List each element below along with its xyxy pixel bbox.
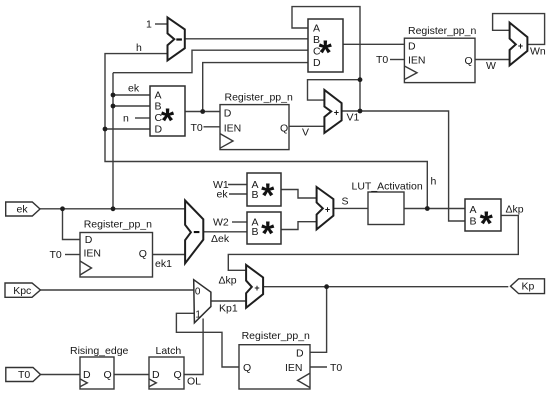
wire ek to multiplier U1 A: [113, 94, 150, 96]
svg-text:IEN: IEN: [285, 362, 303, 374]
multiplier U5: [465, 199, 501, 243]
junction Kp to R4: [324, 284, 329, 289]
svg-text:OL: OL: [187, 376, 201, 388]
wire S from A3 to LUT: [333, 207, 368, 209]
svg-text:1: 1: [146, 19, 152, 31]
wire OL from latch to mux select: [184, 319, 203, 375]
svg-text:+: +: [325, 205, 330, 215]
junction V1 feedback upper: [358, 77, 363, 82]
wire dek from subtractor A4 to U4 B: [203, 231, 247, 233]
svg-text:Kp: Kp: [522, 280, 535, 292]
svg-text:Kpc: Kpc: [13, 285, 31, 297]
wire U2 output to register R2 D: [343, 43, 404, 45]
svg-text:Kp1: Kp1: [219, 303, 238, 315]
wire U4 output to adder A3: [281, 222, 317, 230]
svg-text:ek: ek: [17, 204, 29, 216]
svg-text:IEN: IEN: [84, 248, 102, 260]
wire ek1 from R3 Q to subtractor A4: [153, 254, 185, 256]
wire V from R1 Q to adder A2: [289, 125, 324, 127]
multiplier U1: [150, 86, 185, 140]
svg-text:*: *: [480, 205, 494, 243]
svg-text:D: D: [152, 369, 160, 381]
svg-text:Wn: Wn: [530, 46, 546, 58]
svg-text:*: *: [261, 215, 275, 253]
svg-text:Register_pp_n: Register_pp_n: [242, 330, 310, 342]
wire LUT output to U5 A: [404, 208, 465, 210]
svg-text:+: +: [518, 41, 523, 51]
junction U1 output: [200, 109, 205, 114]
svg-text:S: S: [342, 196, 349, 208]
svg-text:W2: W2: [213, 217, 229, 229]
register R2 Register_pp_n: [404, 25, 476, 83]
wire T0 to R2 IEN: [390, 59, 404, 61]
wire subtractor output to U2 B: [185, 38, 308, 40]
wire W1 to multiplier U3 A: [228, 184, 247, 186]
svg-text:Q: Q: [243, 362, 251, 374]
port Kpc: [5, 283, 40, 297]
multiplier U3: [247, 173, 281, 215]
wire rising edge Q to latch D: [114, 374, 149, 376]
svg-text:T0: T0: [191, 122, 203, 134]
wire W from R2 Q to adder A5: [475, 59, 510, 61]
svg-text:Δkp: Δkp: [506, 204, 524, 216]
svg-text:T0: T0: [330, 362, 342, 374]
wire h net: [105, 54, 427, 209]
wire ek vertical riser: [112, 73, 114, 209]
wire V1 to adder A2 upper input: [308, 80, 361, 100]
port ek: [6, 202, 40, 216]
wire U3 output to adder A3: [281, 190, 317, 199]
junction ek wire to riser: [111, 206, 116, 211]
register R1 Register_pp_n: [220, 92, 293, 150]
svg-text:W: W: [486, 60, 496, 72]
adder A2 V1: [324, 90, 341, 133]
junction ek to A input: [111, 93, 116, 98]
wire Kp branch to R4 D: [310, 287, 327, 353]
svg-text:B: B: [252, 189, 259, 201]
svg-text:D: D: [296, 348, 304, 360]
svg-text:IEN: IEN: [224, 122, 242, 134]
svg-text:IEN: IEN: [408, 55, 426, 67]
svg-text:Register_pp_n: Register_pp_n: [408, 25, 476, 37]
wire ek branch down to register R3 D: [63, 209, 81, 240]
svg-text:Q: Q: [139, 248, 147, 260]
svg-text:*: *: [161, 102, 175, 140]
adder A5 Wn: [510, 23, 528, 66]
port T0: [6, 368, 41, 382]
svg-text:A: A: [470, 204, 477, 216]
wire T0 to R1 IEN: [204, 126, 221, 128]
register R4 Register_pp_n mirrored: [239, 330, 310, 389]
svg-text:0: 0: [195, 286, 201, 297]
svg-text:1: 1: [195, 310, 201, 321]
wire W2 to multiplier U4 A: [232, 221, 247, 223]
svg-text:V1: V1: [347, 112, 360, 124]
subtractor A1 (1-h): [168, 17, 185, 60]
wire R4 Q to mux M1 input 1: [176, 313, 239, 367]
svg-text:B: B: [470, 216, 477, 228]
rising edge detector: [70, 345, 129, 389]
wire n input to U1 C: [135, 117, 150, 119]
latch: [149, 345, 184, 389]
wire h to multiplier U1 D: [105, 128, 150, 130]
svg-text:Q: Q: [280, 122, 288, 134]
wire Wn feedback loop: [493, 14, 545, 45]
multiplier U4: [247, 212, 281, 253]
svg-text:ek1: ek1: [155, 258, 172, 270]
junction LUT output h: [425, 206, 430, 211]
svg-text:Latch: Latch: [156, 345, 182, 357]
svg-text:B: B: [252, 226, 259, 238]
wire R4 IEN to T0: [310, 366, 327, 368]
svg-text:Q: Q: [104, 369, 112, 381]
wire U1 output branch to U2 D: [203, 63, 308, 112]
svg-text:Δek: Δek: [211, 233, 230, 245]
adder A3 S: [317, 187, 334, 229]
svg-text:T0: T0: [50, 249, 62, 261]
svg-text:Rising_edge: Rising_edge: [70, 345, 129, 357]
LUT_Activation block: [352, 181, 423, 225]
svg-text:h: h: [431, 176, 437, 188]
subtractor A4 dek: [185, 201, 203, 264]
wire ek to multiplier U1 B: [113, 105, 150, 107]
wire Kp output net: [263, 286, 508, 288]
wire ek net horizontal: [40, 208, 185, 210]
wire Kp1 from mux M1 to adder A6: [211, 300, 246, 302]
svg-text:V: V: [302, 126, 309, 138]
svg-text:D: D: [83, 369, 91, 381]
wire dkp from U5 to adder A6: [228, 215, 518, 270]
wire V1 output net: [342, 111, 465, 221]
junction ek wire to R3: [60, 206, 65, 211]
junction ek to B input: [111, 104, 116, 109]
svg-text:ek: ek: [217, 189, 229, 201]
wire constant 1 to subtractor: [155, 23, 167, 25]
wire ek to multiplier U2 C: [113, 50, 308, 72]
wire T0 to R3 IEN: [65, 254, 80, 256]
svg-text:T0: T0: [18, 369, 30, 381]
adder A6 Kp: [246, 265, 263, 308]
wire V1 to U2 A feedback: [292, 7, 360, 111]
svg-text:Register_pp_n: Register_pp_n: [225, 92, 293, 104]
junction h to U1 D: [103, 127, 108, 132]
wire Kpc to mux M1 input 0: [40, 289, 193, 291]
svg-text:D: D: [224, 108, 232, 120]
wire ek to multiplier U3 B: [229, 193, 247, 195]
svg-text:D: D: [85, 234, 93, 246]
wire U1 output to register R1 D: [185, 111, 220, 113]
wire T0 port to rising edge D: [41, 374, 81, 376]
svg-text:ek: ek: [128, 83, 140, 95]
svg-text:+: +: [334, 108, 339, 118]
register R3 Register_pp_n: [80, 218, 153, 277]
svg-text:h: h: [136, 42, 142, 54]
junction V1 output: [358, 109, 363, 114]
svg-text:Q: Q: [174, 369, 182, 381]
svg-text:LUT_Activation: LUT_Activation: [352, 181, 423, 193]
svg-text:A: A: [313, 23, 320, 35]
svg-text:Δkp: Δkp: [219, 275, 237, 287]
svg-text:T0: T0: [376, 54, 388, 66]
svg-text:Register_pp_n: Register_pp_n: [84, 218, 152, 230]
svg-text:*: *: [261, 177, 275, 215]
svg-text:*: *: [319, 34, 333, 72]
svg-text:D: D: [408, 40, 416, 52]
mux M1: [194, 280, 211, 323]
multiplier U2: [308, 19, 343, 72]
svg-text:Q: Q: [465, 55, 473, 67]
svg-text:n: n: [123, 113, 129, 125]
svg-text:+: +: [254, 283, 259, 293]
port Kp: [511, 279, 545, 294]
